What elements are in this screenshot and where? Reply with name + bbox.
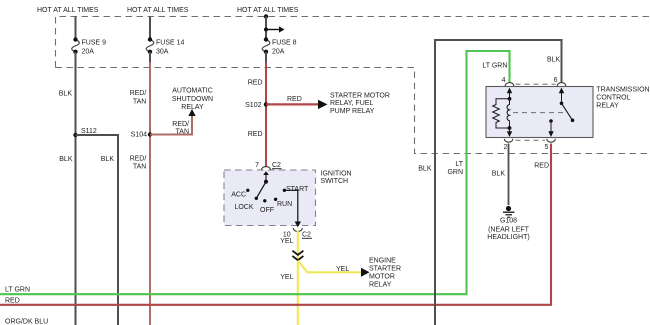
relay resistor parallel with coil xyxy=(493,99,510,128)
svg-text:AUTOMATIC: AUTOMATIC xyxy=(172,87,213,94)
relay switch fixed contact to pin 5 xyxy=(549,119,553,123)
svg-text:C2: C2 xyxy=(302,232,311,239)
wire RED branch from S102 to starter motor relay xyxy=(266,103,318,105)
svg-text:HOT AT ALL TIMES: HOT AT ALL TIMES xyxy=(237,7,299,14)
wire RED long run from pin 5 xyxy=(0,144,551,305)
wire BLK long run to pin 6 xyxy=(435,40,562,325)
ground G108 symbol xyxy=(506,206,511,211)
svg-text:STARTER MOTOR: STARTER MOTOR xyxy=(330,93,390,100)
relay coil branch: pin 4 lead with arrow up xyxy=(509,92,511,100)
svg-text:YEL: YEL xyxy=(336,266,349,273)
svg-text:TAN: TAN xyxy=(133,164,146,171)
svg-text:(NEAR LEFT: (NEAR LEFT xyxy=(488,226,530,233)
svg-text:30A: 30A xyxy=(156,48,169,55)
svg-text:RED/: RED/ xyxy=(130,156,147,163)
svg-text:RELAY: RELAY xyxy=(369,281,392,288)
svg-text:6: 6 xyxy=(554,77,558,84)
svg-text:GRN: GRN xyxy=(447,169,463,176)
ignition switch internals: arrow up at pin 7 xyxy=(263,171,269,175)
ignition switch box xyxy=(224,170,316,226)
svg-text:YEL: YEL xyxy=(280,274,293,281)
relay coil (inductor) xyxy=(507,99,509,128)
svg-text:BLK: BLK xyxy=(101,156,115,163)
svg-text:FUSE 8: FUSE 8 xyxy=(272,39,297,46)
splice S102 xyxy=(264,102,268,106)
svg-text:RED/: RED/ xyxy=(172,121,189,128)
splice S104 xyxy=(148,132,152,136)
arrow to starter motor relay xyxy=(318,100,328,109)
relay pin 4 connector arc xyxy=(505,83,514,86)
wire feed to fuse 14 xyxy=(149,17,151,39)
svg-text:TRANSMISSION: TRANSMISSION xyxy=(596,86,649,93)
svg-text:MOTOR: MOTOR xyxy=(369,273,395,280)
dashed connector line between pin 2 and pin 5 xyxy=(516,139,546,141)
svg-text:ENGINE: ENGINE xyxy=(369,257,396,264)
svg-text:RED: RED xyxy=(287,96,302,103)
svg-text:BLK: BLK xyxy=(492,170,506,177)
svg-text:LT: LT xyxy=(455,161,463,168)
wire YEL branch to engine starter motor relay xyxy=(298,261,361,273)
fuse F8 symbol xyxy=(262,40,270,52)
fuse F14 symbol xyxy=(146,40,154,52)
svg-text:RELAY, FUEL: RELAY, FUEL xyxy=(330,100,373,107)
wire RED from fuse 8 to ignition switch pin 7 xyxy=(265,62,267,167)
switch position dot RUN xyxy=(274,198,277,201)
arrow to automatic shutdown relay xyxy=(188,109,195,116)
svg-text:SWITCH: SWITCH xyxy=(321,178,349,185)
svg-text:S112: S112 xyxy=(81,128,97,135)
svg-text:FUSE 14: FUSE 14 xyxy=(156,39,185,46)
switch position dot ACC xyxy=(246,189,249,192)
svg-text:BLK: BLK xyxy=(418,166,432,173)
wire LT GRN long run xyxy=(0,51,510,294)
svg-text:FUSE 9: FUSE 9 xyxy=(82,39,107,46)
wire BLK from fuse 9 down to bottom xyxy=(75,52,77,325)
svg-text:5: 5 xyxy=(545,144,549,151)
wire feed to fuse 8 xyxy=(265,17,267,39)
svg-text:20A: 20A xyxy=(272,48,285,55)
relay switch: pin 6 lead with arrow up xyxy=(561,92,563,104)
svg-text:20A: 20A xyxy=(82,48,95,55)
arrow stub to other circuits xyxy=(264,28,268,32)
svg-text:7: 7 xyxy=(255,162,259,169)
relay pin 2 connector arc xyxy=(504,139,513,142)
svg-text:4: 4 xyxy=(502,77,506,84)
inline connector chevrons on YEL wire xyxy=(292,251,303,261)
pin 7 connector arc xyxy=(261,167,270,170)
power distribution dashed boundary (hot at all times region) xyxy=(56,17,650,154)
relay pin 2 lead with arrow down xyxy=(509,128,511,132)
svg-text:S104: S104 xyxy=(131,132,147,139)
svg-text:LT GRN: LT GRN xyxy=(5,287,30,294)
wire from START contact to pin 10 xyxy=(284,190,297,221)
wire RED/TAN down to bottom xyxy=(149,62,151,325)
dashed connector line between pin 4 and pin 6 xyxy=(516,83,556,85)
svg-text:BLK: BLK xyxy=(547,57,561,64)
wire BLK branch from S112 xyxy=(76,135,119,325)
svg-text:RED: RED xyxy=(248,80,263,87)
svg-text:HOT AT ALL TIMES: HOT AT ALL TIMES xyxy=(127,7,189,14)
svg-text:G108: G108 xyxy=(500,218,517,225)
wire gray below fuse 14 xyxy=(149,52,151,63)
arrow to engine starter motor relay xyxy=(361,268,370,277)
switch position dot OFF xyxy=(263,199,266,202)
svg-text:ACC: ACC xyxy=(231,191,246,198)
svg-text:STARTER: STARTER xyxy=(369,265,401,272)
wire feed to fuse 9 xyxy=(75,17,77,39)
svg-text:CONTROL: CONTROL xyxy=(596,94,630,101)
svg-text:RELAY: RELAY xyxy=(596,102,619,109)
relay pin 6 connector arc xyxy=(557,83,566,86)
switch position dot START xyxy=(283,189,286,192)
svg-text:HOT AT ALL TIMES: HOT AT ALL TIMES xyxy=(37,7,99,14)
svg-text:HEADLIGHT): HEADLIGHT) xyxy=(487,234,529,241)
switch arm to LOCK xyxy=(256,182,266,199)
svg-text:RED: RED xyxy=(248,131,263,138)
svg-text:OFF: OFF xyxy=(260,207,274,214)
svg-text:RELAY: RELAY xyxy=(181,104,204,111)
svg-text:ORG/DK BLU: ORG/DK BLU xyxy=(5,319,48,325)
splice S112 xyxy=(73,133,77,137)
wire gray below fuse 8 xyxy=(265,52,267,63)
wire YEL from pin 10 down to bottom xyxy=(297,231,299,325)
node tap dot on hot bus for fuse 8 xyxy=(264,14,268,18)
svg-text:LOCK: LOCK xyxy=(234,204,253,211)
svg-text:TAN: TAN xyxy=(133,98,146,105)
svg-text:LT GRN: LT GRN xyxy=(482,63,507,70)
svg-text:S102: S102 xyxy=(245,102,261,109)
svg-text:RED: RED xyxy=(534,162,549,169)
switch arm pivot dot xyxy=(264,180,268,184)
svg-text:C2: C2 xyxy=(272,162,281,169)
pin 10 connector arc xyxy=(293,228,302,231)
svg-text:IGNITION: IGNITION xyxy=(321,171,352,178)
relay switch arm xyxy=(562,103,573,120)
svg-text:YEL: YEL xyxy=(280,238,293,245)
svg-text:SHUTDOWN: SHUTDOWN xyxy=(172,96,213,103)
svg-text:RED/: RED/ xyxy=(130,90,147,97)
fuse F9 symbol xyxy=(72,40,80,52)
svg-text:BLK: BLK xyxy=(59,156,73,163)
svg-text:BLK: BLK xyxy=(59,91,73,98)
svg-text:PUMP RELAY: PUMP RELAY xyxy=(330,108,375,115)
svg-text:TAN: TAN xyxy=(176,129,189,136)
switch position dot LOCK xyxy=(255,197,258,200)
svg-text:2: 2 xyxy=(503,144,507,151)
relay box U1 transmission control relay xyxy=(486,87,593,138)
arrow down at pin 10 xyxy=(295,222,301,228)
wire RED/TAN branch from S104 to automatic shutdown relay xyxy=(150,115,192,135)
wire BLK from relay pin 2 to ground xyxy=(508,144,510,206)
svg-text:RUN: RUN xyxy=(277,201,292,208)
relay pin 5 connector arc xyxy=(547,139,556,142)
svg-text:RED: RED xyxy=(5,298,20,305)
relay mechanical dashed link xyxy=(513,112,564,114)
